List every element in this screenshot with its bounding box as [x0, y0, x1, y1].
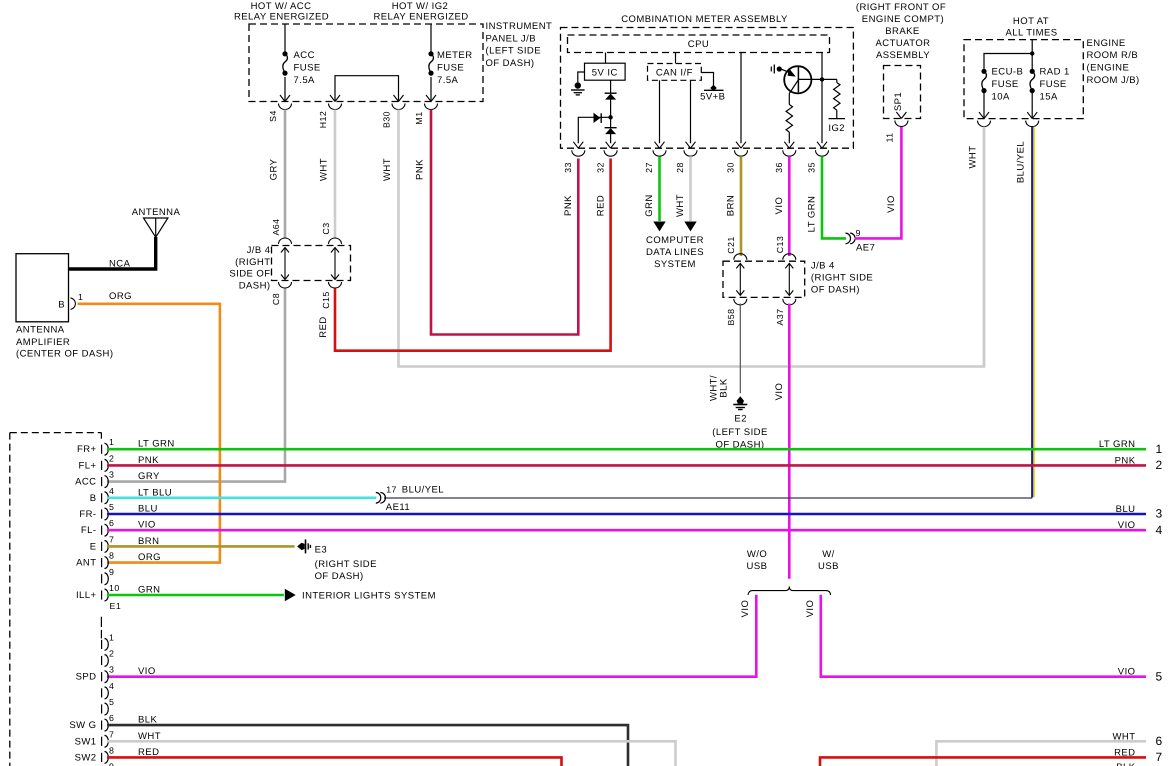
svg-text:FL-: FL-: [81, 525, 97, 536]
wire WHT H12 to J/B4 C3: [334, 110, 337, 238]
svg-text:(ENGINE: (ENGINE: [1087, 63, 1130, 74]
svg-text:ACC: ACC: [75, 477, 96, 488]
svg-text:2: 2: [109, 649, 114, 659]
svg-text:E1: E1: [110, 601, 122, 611]
pin B30 exit: [392, 95, 405, 110]
svg-text:FUSE: FUSE: [992, 79, 1019, 90]
wire WHT right bottom: [936, 741, 1146, 766]
svg-text:(RIGHT SIDE: (RIGHT SIDE: [811, 272, 873, 283]
junction block: INSTRUMENT PANEL J/B box: [249, 24, 483, 102]
diode D1: [605, 92, 617, 94]
engine room R/B box: [964, 40, 1083, 119]
svg-text:PANEL J/B: PANEL J/B: [486, 34, 537, 45]
svg-text:A64: A64: [271, 218, 281, 235]
radio unit box: [10, 432, 102, 434]
wire CPU to pin 35 via node: [821, 53, 823, 144]
svg-text:S4: S4: [268, 110, 278, 122]
svg-text:1: 1: [78, 292, 83, 302]
pin 33 exit: [572, 142, 585, 157]
svg-text:NCA: NCA: [109, 259, 131, 270]
svg-text:BRAKE: BRAKE: [885, 26, 919, 37]
svg-text:FL+: FL+: [79, 460, 97, 471]
svg-text:15A: 15A: [1040, 92, 1058, 103]
svg-text:J/B 4: J/B 4: [247, 245, 271, 256]
connector1 pin 8 ANT: [102, 557, 109, 569]
svg-text:FUSE: FUSE: [437, 63, 464, 74]
wire CAN to pin 28: [690, 80, 692, 143]
connector2 pin 5: [102, 703, 109, 715]
wire BRN pin30 to J/B4 C21: [740, 156, 743, 256]
wire RED right bottom: [820, 757, 1146, 766]
svg-text:2: 2: [1156, 458, 1163, 472]
svg-text:6: 6: [1156, 734, 1163, 748]
wire WHT B30 to ECU-B fuse: [399, 110, 985, 367]
svg-text:28: 28: [675, 162, 685, 173]
connector1 pin 10 ILL+: [102, 589, 109, 601]
wire CPU to 5V IC: [605, 53, 607, 64]
svg-text:CPU: CPU: [688, 39, 709, 50]
svg-text:BRN: BRN: [726, 195, 737, 216]
svg-text:36: 36: [774, 162, 784, 173]
svg-text:ENGINE COMPT): ENGINE COMPT): [862, 14, 944, 25]
svg-text:RELAY ENERGIZED: RELAY ENERGIZED: [234, 12, 329, 23]
svg-text:COMPUTER: COMPUTER: [646, 235, 704, 246]
pin S4 exit: [279, 95, 292, 110]
pin M1 exit: [425, 95, 438, 110]
svg-text:SIDE OF: SIDE OF: [229, 269, 270, 280]
pin C3: [329, 238, 342, 244]
pin C21: [734, 254, 747, 260]
ground E2: [733, 396, 747, 409]
svg-text:C8: C8: [271, 293, 281, 305]
svg-text:VIO: VIO: [774, 383, 785, 401]
svg-text:PNK: PNK: [415, 159, 426, 180]
svg-text:9: 9: [109, 567, 114, 577]
svg-text:A37: A37: [775, 308, 785, 325]
svg-text:10: 10: [109, 583, 120, 593]
wire CAN to 5V+B: [701, 73, 713, 86]
svg-text:ROOM J/B): ROOM J/B): [1087, 75, 1140, 86]
svg-text:BLK: BLK: [1116, 762, 1136, 766]
pin exit WHT: [978, 112, 991, 127]
svg-text:WHT: WHT: [968, 146, 979, 169]
svg-text:6: 6: [109, 518, 114, 528]
connector2 pin 1: [102, 639, 109, 651]
svg-text:1: 1: [1156, 442, 1163, 456]
wire BLU/YEL RAD1 down: [1031, 127, 1033, 498]
base signal symbol: [770, 67, 772, 72]
svg-text:ACTUATOR: ACTUATOR: [876, 38, 931, 49]
svg-text:2: 2: [109, 453, 114, 463]
junction block J/B 4 (C21/B58 C13/A37): [723, 261, 805, 297]
pass-through arrow: [281, 248, 289, 280]
pin C8: [279, 282, 292, 288]
ic 5V IC: [585, 63, 626, 80]
wire LT BLU B row to AE11: [107, 496, 376, 499]
svg-text:GRN: GRN: [644, 194, 655, 216]
svg-text:B: B: [58, 300, 65, 311]
connector2 pin 6 SW G: [102, 719, 109, 731]
svg-text:SYSTEM: SYSTEM: [654, 259, 696, 270]
internal link H12-B30: [335, 76, 399, 101]
connector2 pin 4: [102, 687, 109, 699]
svg-text:METER: METER: [437, 50, 473, 61]
pin 32 exit: [604, 142, 617, 157]
svg-text:32: 32: [595, 162, 605, 173]
svg-text:VIO: VIO: [1118, 667, 1136, 678]
svg-text:4: 4: [109, 486, 114, 496]
svg-text:M1: M1: [414, 111, 424, 124]
pin H12 exit: [329, 95, 342, 110]
antenna amplifier box: [16, 254, 69, 322]
svg-text:FR-: FR-: [79, 509, 96, 520]
svg-text:11: 11: [885, 132, 895, 142]
svg-text:7: 7: [1156, 750, 1163, 764]
wire WHT/BLK B58 to ground E2: [739, 304, 741, 394]
svg-text:ANTENNA: ANTENNA: [16, 325, 65, 336]
svg-text:FR+: FR+: [77, 444, 97, 455]
svg-text:USB: USB: [747, 561, 768, 572]
svg-text:5V+B: 5V+B: [700, 92, 725, 103]
terminal 5V+B: [710, 85, 717, 91]
wire CPU to pin 30: [740, 53, 742, 144]
svg-text:INTERIOR LIGHTS SYSTEM: INTERIOR LIGHTS SYSTEM: [302, 591, 436, 602]
wire PNK FL+ row: [107, 464, 1146, 467]
fuse ECU-B FUSE 10A: [981, 69, 986, 94]
svg-text:VIO: VIO: [138, 666, 156, 677]
connector2 pin 7 SW1: [102, 735, 109, 747]
svg-text:OF DASH): OF DASH): [811, 285, 860, 296]
svg-text:C13: C13: [775, 236, 785, 254]
svg-text:33: 33: [563, 162, 573, 173]
svg-text:17: 17: [386, 485, 397, 495]
svg-text:AE11: AE11: [386, 502, 410, 513]
wire BLU FR- row: [107, 513, 1146, 516]
svg-text:(CENTER OF DASH): (CENTER OF DASH): [16, 349, 113, 360]
pass-through arrow: [331, 248, 339, 280]
feed wire: [1031, 40, 1033, 71]
connector1 pin 9: [102, 573, 109, 585]
svg-text:WHT: WHT: [319, 158, 330, 181]
connector2 pin 2: [102, 655, 109, 667]
connector AE7: [846, 233, 856, 244]
junction node: [608, 115, 612, 119]
svg-text:C3: C3: [321, 222, 331, 234]
connector1 pin 6 FL-: [102, 524, 109, 536]
pin C13: [783, 254, 796, 260]
wire feed ACC fuse: [284, 24, 286, 53]
svg-text:FUSE: FUSE: [294, 63, 321, 74]
wire WHT pin28 to computer data lines: [689, 156, 692, 221]
ic CAN I/F box: [648, 64, 702, 81]
wire 5VIC to ground: [578, 72, 585, 82]
fuse METER FUSE 7.5A: [428, 51, 433, 75]
svg-text:10A: 10A: [992, 92, 1010, 103]
wire CPU to CAN I/F: [675, 53, 677, 64]
pin 30 exit: [735, 142, 748, 157]
svg-text:GRY: GRY: [138, 471, 160, 482]
pin A37: [783, 299, 796, 305]
wire VIO pin36 to J/B4 C13: [788, 156, 791, 256]
svg-text:GRY: GRY: [269, 158, 280, 180]
svg-text:BLK: BLK: [138, 715, 158, 726]
connector1 pin 1 FR+: [102, 443, 109, 455]
connector1 pin 7 E: [102, 541, 109, 553]
svg-text:(LEFT SIDE: (LEFT SIDE: [486, 46, 542, 57]
svg-text:3: 3: [109, 470, 114, 480]
diode D3: [594, 113, 601, 123]
svg-text:35: 35: [807, 162, 817, 173]
svg-text:PNK: PNK: [1115, 455, 1136, 466]
resistor R1: [788, 94, 790, 105]
wire BLK SW G: [107, 725, 628, 766]
svg-text:VIO: VIO: [740, 600, 751, 618]
svg-text:HOT W/ ACC: HOT W/ ACC: [251, 1, 312, 12]
svg-text:SW1: SW1: [75, 736, 97, 747]
svg-text:B58: B58: [726, 308, 736, 325]
svg-text:RED: RED: [138, 747, 159, 758]
pin 35 exit: [816, 142, 829, 157]
svg-text:30: 30: [726, 162, 736, 173]
svg-text:8: 8: [109, 745, 114, 755]
svg-text:ENGINE: ENGINE: [1087, 38, 1126, 49]
svg-text:WHT: WHT: [675, 194, 686, 217]
svg-text:ACC: ACC: [294, 50, 315, 61]
svg-text:C15: C15: [321, 291, 331, 309]
svg-text:INSTRUMENT: INSTRUMENT: [486, 21, 553, 32]
svg-text:VIO: VIO: [1118, 520, 1136, 531]
svg-text:ORG: ORG: [109, 291, 132, 302]
svg-text:WHT: WHT: [138, 731, 161, 742]
svg-text:(RIGHT SIDE: (RIGHT SIDE: [315, 559, 377, 570]
svg-text:27: 27: [644, 162, 654, 173]
svg-text:RED: RED: [595, 195, 606, 216]
svg-text:WHT: WHT: [382, 158, 393, 181]
connector1 pin 2 FL+: [102, 460, 109, 472]
svg-text:AMPLIFIER: AMPLIFIER: [16, 337, 70, 348]
wire VIO A37 down to USB split: [788, 304, 791, 579]
svg-text:DASH): DASH): [239, 280, 271, 291]
svg-text:E: E: [90, 541, 97, 552]
wire RED C15 to meter pin 32: [335, 159, 611, 351]
svg-text:7: 7: [109, 534, 114, 544]
svg-text:5: 5: [109, 502, 114, 512]
svg-text:5: 5: [1156, 669, 1163, 683]
diode D2: [605, 127, 617, 129]
fuse RAD 1 FUSE 15A: [1030, 69, 1035, 94]
svg-text:IG2: IG2: [828, 123, 845, 134]
wire WHT ECU-B down: [983, 127, 986, 367]
svg-text:BLU/YEL: BLU/YEL: [402, 485, 444, 496]
pin 11 exit: [895, 112, 908, 127]
svg-text:VIO: VIO: [805, 600, 816, 618]
svg-text:(LEFT SIDE: (LEFT SIDE: [712, 427, 768, 438]
svg-text:8: 8: [109, 551, 114, 561]
svg-text:5: 5: [109, 697, 114, 707]
svg-text:ANT: ANT: [76, 558, 96, 569]
ground E3: [297, 539, 310, 553]
svg-text:E3: E3: [315, 545, 328, 556]
svg-text:FUSE: FUSE: [1040, 79, 1067, 90]
wire NCA: [69, 237, 156, 269]
wire to ECU-B fuse: [984, 54, 1032, 72]
pin B58: [734, 299, 747, 305]
connector2 pin 8 SW2: [102, 752, 109, 764]
pin 1 arc: [71, 298, 76, 310]
wire GRY S4 to J/B4 A64: [284, 110, 287, 238]
pin A64: [279, 238, 292, 244]
svg-text:E2: E2: [734, 414, 747, 425]
svg-text:USB: USB: [818, 561, 839, 572]
svg-text:RAD 1: RAD 1: [1040, 67, 1070, 78]
svg-text:(RIGHT: (RIGHT: [235, 257, 270, 268]
wire GRY C8 down to radio ACC pin: [107, 289, 285, 482]
wire branch to pin 33: [578, 117, 610, 143]
svg-text:ALL TIMES: ALL TIMES: [1005, 28, 1057, 39]
svg-text:LT GRN: LT GRN: [807, 196, 818, 233]
svg-text:SP1: SP1: [893, 92, 904, 111]
wire VIO AE7 to brake actuator pin 11: [855, 127, 902, 238]
fuse ACC FUSE 7.5A: [282, 51, 287, 75]
wire GRN ILL+ row to interior lights: [107, 594, 284, 597]
svg-text:ASSEMBLY: ASSEMBLY: [876, 50, 930, 61]
connector2 pin 3 SPD: [102, 671, 109, 683]
svg-text:COMBINATION METER ASSEMBLY: COMBINATION METER ASSEMBLY: [621, 14, 788, 25]
svg-text:7: 7: [109, 729, 114, 739]
svg-text:7.5A: 7.5A: [437, 75, 459, 86]
connector AE11: [376, 493, 386, 504]
brake actuator box: [884, 66, 921, 119]
svg-text:OF DASH): OF DASH): [315, 571, 364, 582]
wire feed METER fuse: [430, 24, 432, 53]
junction node: [820, 77, 824, 81]
svg-text:4: 4: [1156, 523, 1163, 537]
ground internal: [571, 82, 585, 95]
svg-text:ANTENNA: ANTENNA: [132, 207, 181, 218]
svg-text:C21: C21: [726, 236, 736, 254]
connector1 pin 5 FR-: [102, 508, 109, 520]
svg-text:W/O: W/O: [747, 549, 767, 560]
resistor R2 to IG2: [836, 79, 838, 82]
svg-text:ORG: ORG: [138, 552, 161, 563]
svg-text:VIO: VIO: [774, 197, 785, 215]
wire BLU/YEL horizontal to AE11: [384, 497, 1032, 499]
wire VIO w/ USB branch to right edge: [821, 595, 1146, 677]
wire RED SW2: [107, 757, 562, 766]
svg-text:LT GRN: LT GRN: [1099, 439, 1136, 450]
svg-text:VIO: VIO: [886, 195, 897, 213]
svg-text:1: 1: [109, 437, 114, 447]
brace split symbol: [748, 587, 831, 596]
CPU box: [568, 35, 830, 53]
svg-text:5V IC: 5V IC: [592, 68, 618, 79]
connector1 pin 3 ACC: [102, 476, 109, 488]
pin exit BLU/YEL: [1026, 112, 1039, 127]
svg-text:W/: W/: [822, 549, 835, 560]
antenna symbol: [144, 218, 168, 237]
svg-text:B30: B30: [382, 111, 392, 128]
svg-text:HOT AT: HOT AT: [1013, 16, 1049, 27]
svg-text:ROOM R/B: ROOM R/B: [1087, 50, 1139, 61]
wire LT GRN FR+ row: [107, 448, 1146, 451]
wire WHT SW1: [107, 741, 676, 766]
svg-text:ECU-B: ECU-B: [992, 67, 1024, 78]
transistor Q1: [784, 66, 811, 93]
connector1 pin 4 B: [102, 492, 109, 504]
junction node: [1030, 51, 1034, 55]
svg-text:SPD: SPD: [76, 672, 97, 683]
svg-text:9: 9: [109, 762, 114, 766]
wire CAN to pin 27: [659, 80, 661, 143]
wire VIO FL- row: [107, 529, 1146, 532]
svg-text:HOT W/ IG2: HOT W/ IG2: [392, 1, 449, 12]
svg-text:RELAY ENERGIZED: RELAY ENERGIZED: [373, 12, 468, 23]
wire LT GRN pin35 to AE7: [822, 156, 846, 238]
pin 36 exit: [783, 142, 796, 157]
svg-text:BLK: BLK: [719, 378, 730, 398]
svg-text:6: 6: [109, 713, 114, 723]
wire GRN pin27 to computer data lines: [658, 156, 661, 221]
wire BRN E row to ground E3: [107, 545, 295, 548]
svg-text:3: 3: [1156, 507, 1163, 521]
emitter wire: [789, 80, 798, 94]
svg-text:CAN I/F: CAN I/F: [656, 68, 693, 79]
svg-text:B: B: [90, 493, 97, 504]
svg-text:J/B 4: J/B 4: [811, 260, 835, 271]
svg-text:1: 1: [109, 632, 114, 642]
svg-text:4: 4: [109, 681, 114, 691]
svg-text:7.5A: 7.5A: [294, 75, 316, 86]
wire VIO w/o USB branch to SPD: [107, 595, 756, 677]
svg-text:AE7: AE7: [856, 243, 875, 254]
terminal IG2: [829, 118, 846, 120]
wire ORG amplifier to radio ANT pin: [78, 304, 220, 563]
pin C15: [329, 282, 342, 288]
svg-text:3: 3: [109, 665, 114, 675]
svg-text:PNK: PNK: [563, 195, 574, 216]
svg-text:BLU/YEL: BLU/YEL: [1016, 141, 1027, 183]
svg-text:SW2: SW2: [75, 752, 97, 763]
wire 5VIC down: [610, 80, 612, 93]
svg-text:9: 9: [856, 228, 861, 238]
collector wire to IG2 resistor: [798, 78, 836, 80]
pin 27 exit: [653, 142, 666, 157]
svg-text:SW G: SW G: [69, 720, 96, 731]
wire PNK M1 to meter pin 33: [431, 110, 578, 335]
pin 28 exit: [684, 142, 697, 157]
junction block J/B 4 (A64/C8 C3/C15): [272, 246, 351, 281]
svg-text:ILL+: ILL+: [76, 590, 97, 601]
svg-text:OF DASH): OF DASH): [486, 58, 535, 69]
svg-text:H12: H12: [318, 111, 328, 129]
svg-text:BLU: BLU: [1116, 504, 1136, 515]
svg-text:DATA LINES: DATA LINES: [646, 247, 704, 258]
combination meter assembly box: [561, 28, 854, 149]
svg-text:RED: RED: [318, 316, 329, 337]
svg-text:(RIGHT FRONT OF: (RIGHT FRONT OF: [856, 2, 946, 13]
